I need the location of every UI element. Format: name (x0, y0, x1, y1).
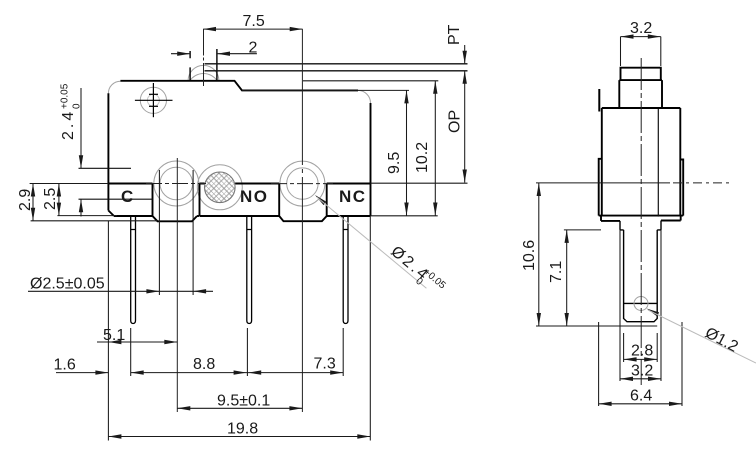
svg-text:Ø2.5±0.05: Ø2.5±0.05 (30, 276, 105, 293)
svg-text:7.5: 7.5 (243, 13, 265, 30)
svg-text:OP: OP (447, 110, 464, 133)
svg-text:3.2: 3.2 (631, 363, 653, 380)
svg-text:1.6: 1.6 (54, 357, 76, 374)
svg-text:19.8: 19.8 (227, 421, 258, 438)
svg-text:9.5: 9.5 (386, 152, 403, 174)
svg-text:NC: NC (339, 187, 367, 206)
svg-text:2.4: 2.4 (60, 109, 77, 140)
svg-text:PT: PT (446, 24, 463, 45)
svg-text:3.2: 3.2 (630, 20, 652, 37)
svg-text:9.5±0.1: 9.5±0.1 (217, 393, 270, 410)
svg-text:6.4: 6.4 (630, 388, 652, 405)
svg-text:2.9: 2.9 (17, 189, 34, 211)
svg-text:10.2: 10.2 (414, 142, 431, 173)
svg-text:7.3: 7.3 (314, 356, 336, 373)
svg-text:5.1: 5.1 (103, 327, 125, 344)
svg-text:7.1: 7.1 (548, 261, 565, 283)
svg-text:+0.05: +0.05 (60, 83, 71, 109)
svg-text:2.8: 2.8 (631, 343, 653, 360)
svg-text:C: C (121, 187, 135, 206)
svg-text:8.8: 8.8 (193, 356, 215, 373)
svg-text:2: 2 (249, 40, 258, 57)
svg-text:2.5: 2.5 (42, 188, 59, 210)
svg-text:10.6: 10.6 (521, 240, 538, 271)
svg-text:0: 0 (72, 103, 83, 109)
svg-text:NO: NO (240, 187, 269, 206)
